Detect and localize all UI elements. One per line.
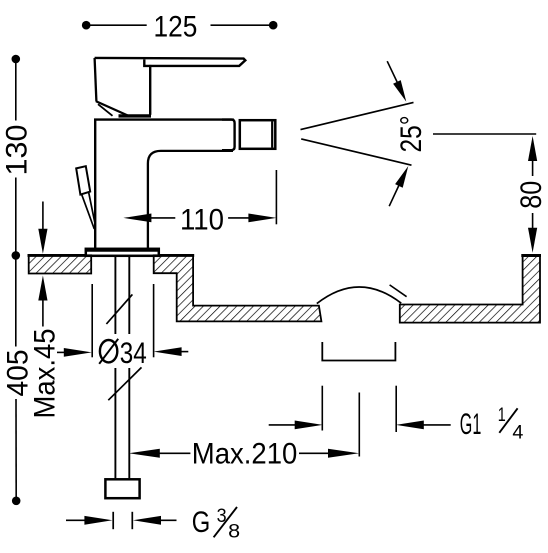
- supply pipe lines: [115, 256, 129, 478]
- dim G-3/8 text: [192, 506, 240, 543]
- svg-text:G1: G1: [460, 408, 482, 441]
- dim 80 arrows: [528, 136, 537, 253]
- pipe break slash upper: [106, 294, 132, 324]
- dim O34 ext lines: [92, 284, 153, 357]
- dim 80 text: [515, 181, 548, 209]
- dim Max.45 text: [29, 329, 62, 419]
- drain centre line: [358, 393, 360, 457]
- counter slab left: [28, 255, 92, 273]
- svg-text:Max.210: Max.210: [192, 438, 297, 471]
- pipe break slash lower: [108, 367, 141, 400]
- spout end: [222, 120, 235, 151]
- dim 125 text: [154, 10, 198, 43]
- svg-text:4: 4: [512, 422, 523, 443]
- dim G1-1/4 ext lines: [322, 386, 396, 432]
- dim G-3/8 arrows: [66, 516, 177, 525]
- splash line: [390, 285, 407, 297]
- dim Max.210 text: [192, 438, 297, 471]
- pop-up rod knob: [76, 166, 90, 194]
- svg-text:34: 34: [120, 337, 147, 370]
- spray cone lower line: [301, 139, 411, 165]
- dim Max.45 arrows: [38, 202, 47, 327]
- dim 125 line: [82, 21, 278, 30]
- dim Max.210 arrows: [129, 449, 359, 458]
- dim O34 text: [99, 337, 147, 370]
- faucet body: [94, 120, 234, 249]
- dim 130-405 line: [12, 55, 21, 505]
- dim 110 text: [180, 203, 224, 236]
- svg-text:80: 80: [515, 181, 548, 209]
- bidet body left section: [154, 255, 322, 321]
- dim G1-1/4 text: [460, 405, 524, 443]
- aerator: [240, 120, 275, 149]
- base flange: [85, 249, 160, 256]
- svg-text:25°: 25°: [395, 116, 428, 153]
- drain tailpiece: [322, 342, 395, 361]
- dim 130 text: [1, 125, 34, 176]
- bidet body right section: [400, 255, 541, 322]
- spray cone upper line: [301, 102, 414, 129]
- dim 80 ref line: [433, 133, 536, 135]
- dim 110 arrows: [123, 214, 276, 223]
- handle base: [95, 58, 151, 116]
- connector nut: [105, 479, 139, 498]
- dim 110 line: [149, 170, 276, 224]
- svg-text:125: 125: [154, 10, 198, 43]
- dim O34 arrows: [57, 347, 188, 357]
- pop-up rod: [82, 193, 95, 229]
- angle leader upper: [387, 61, 406, 102]
- svg-text:130: 130: [1, 125, 34, 176]
- svg-text:110: 110: [180, 203, 224, 236]
- dim G-3/8 ticks: [113, 512, 132, 529]
- dim G1-1/4 arrows: [269, 421, 451, 430]
- svg-text:Max.45: Max.45: [29, 329, 62, 419]
- angle leader lower: [389, 166, 408, 206]
- dim 405 text: [1, 350, 34, 397]
- handle lever: [95, 58, 246, 115]
- svg-text:1: 1: [498, 405, 506, 426]
- angle 25deg text: [395, 116, 428, 153]
- svg-text:G: G: [192, 506, 211, 539]
- hatch pattern def: [0, 0, 1, 1]
- svg-text:8: 8: [228, 521, 240, 542]
- drain mound arc: [317, 287, 401, 304]
